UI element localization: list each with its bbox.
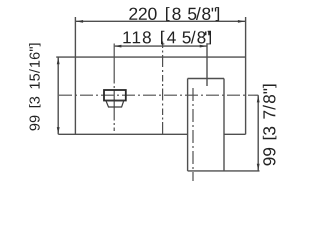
arrows of right 99 dimension [257,95,260,102]
valve body (upper housing) on top of main body [104,90,126,101]
node: horizontal centerline [59,94,258,96]
wire: 118 right extension down to spout box [206,43,208,86]
node: spout box top edge [188,78,224,80]
node: valve vertical centerline [113,44,115,132]
wire: right 99 dimension line [257,95,259,171]
wire: 220 left extension / body left edge [74,17,76,134]
wire: 220 right extension / body right edge [245,17,247,134]
wire: 220 dimension line [76,20,245,22]
wire: main body bottom edge right part [224,133,246,135]
arrows of 118 dimension [114,45,121,48]
node: spout box right edge [223,79,225,171]
valve base (trapezoid) [106,101,124,107]
wire: main body bottom edge left part [58,133,188,135]
node: spout box left edge [187,79,189,171]
label: 99 [3 15/16"] (left, rotated) [29,43,40,130]
label: 220 [8 5/8"] [129,7,219,21]
wire: main body top edge extended to left dim [56,56,245,58]
wire: 118 dimension line [115,45,207,47]
node: body vertical centerline [162,42,164,135]
node: spout outlet centerline [192,88,194,181]
wire: left 99 dimension line [57,57,59,134]
arrows of 220 dimension [57,20,260,171]
node: spout box bottom edge extended to right dim [188,170,260,172]
arrows of left 99 dimension [57,57,60,64]
label: 118 [4 5/8"] [123,31,211,45]
label: 99 [3 7/8"] (right, rotated) [263,85,277,166]
